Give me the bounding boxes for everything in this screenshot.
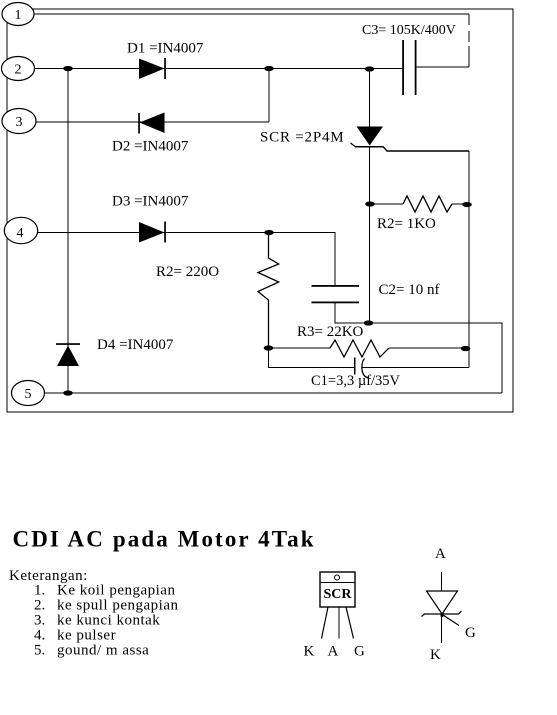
wire right column dashed upper bbox=[468, 14, 470, 46]
svg-text:A: A bbox=[435, 546, 446, 562]
wire R2 1K row left bbox=[370, 203, 404, 205]
terminal 2 bbox=[2, 57, 35, 81]
capacitor C3 bbox=[402, 40, 416, 95]
terminal 4 bbox=[4, 217, 37, 243]
wire R3 row right bbox=[389, 347, 466, 349]
svg-text:4: 4 bbox=[17, 226, 24, 241]
diode D1 bbox=[139, 58, 166, 79]
SCR symbol gate lead bbox=[443, 615, 459, 626]
wire SCR cathode column bbox=[369, 146, 371, 323]
junction D3-R2 node bbox=[264, 230, 274, 235]
SCR U1 (2P4M) bbox=[351, 127, 384, 147]
svg-text:3: 3 bbox=[16, 115, 23, 130]
svg-text:K: K bbox=[304, 644, 315, 660]
SCR package body bbox=[320, 572, 355, 607]
wire SCR anode stub bbox=[369, 69, 371, 128]
svg-text:G: G bbox=[354, 644, 365, 660]
svg-text:ke kunci kontak: ke kunci kontak bbox=[57, 613, 160, 629]
svg-text:2.: 2. bbox=[34, 598, 45, 614]
svg-text:C1=3,3 µf/35V: C1=3,3 µf/35V bbox=[311, 373, 401, 389]
resistor R3 22K (horizontal) bbox=[330, 340, 389, 357]
junction SCR cathode bottom bbox=[364, 320, 374, 325]
junction R3 right bbox=[461, 346, 471, 351]
svg-text:gound/ m assa: gound/ m assa bbox=[57, 643, 149, 659]
svg-text:ke spull pengapian: ke spull pengapian bbox=[57, 598, 178, 614]
capacitor C2 bbox=[312, 285, 360, 303]
junction D1-D2 node bbox=[264, 66, 274, 71]
svg-text:5.: 5. bbox=[34, 643, 45, 659]
wire right bus column bbox=[468, 151, 470, 368]
svg-text:4.: 4. bbox=[34, 628, 45, 644]
svg-text:1: 1 bbox=[15, 8, 22, 23]
wire R2 1K row right bbox=[452, 203, 469, 205]
wire terminal1 to right column bbox=[34, 13, 469, 15]
SCR symbol cathode lead bbox=[441, 614, 443, 643]
wire C3 right plate to right column bbox=[416, 66, 470, 68]
SCR package leg K bbox=[322, 607, 329, 639]
svg-text:5: 5 bbox=[25, 387, 32, 402]
wire right column solid lower bbox=[468, 46, 470, 67]
svg-text:R2= 220O: R2= 220O bbox=[156, 264, 219, 280]
wire link D1 junction down to terminal3 row bbox=[268, 69, 270, 123]
wire terminal4 row bbox=[37, 233, 335, 287]
svg-text:CDI AC pada Motor 4Tak: CDI AC pada Motor 4Tak bbox=[13, 527, 316, 552]
svg-text:A: A bbox=[328, 644, 339, 660]
svg-text:ke pulser: ke pulser bbox=[57, 628, 116, 644]
svg-text:SCR =2P4M: SCR =2P4M bbox=[260, 130, 344, 146]
svg-text:SCR: SCR bbox=[323, 587, 352, 602]
wire C2 bottom to ground column bbox=[335, 303, 502, 394]
junction terminal2-D4 column bbox=[63, 66, 73, 71]
wire C1 row bbox=[269, 348, 355, 368]
svg-text:D4 =IN4007: D4 =IN4007 bbox=[97, 337, 174, 353]
SCR symbol triangle bbox=[427, 591, 458, 614]
wire left vertical column through D4 bbox=[67, 69, 69, 394]
schematic frame bbox=[7, 9, 513, 412]
junction R2 1K left bbox=[365, 201, 375, 206]
wire terminal3 row bbox=[36, 121, 269, 123]
wire gate row bbox=[383, 147, 469, 152]
svg-text:1.: 1. bbox=[34, 583, 45, 599]
SCR symbol cathode bar bbox=[422, 611, 462, 617]
svg-text:R2= 1KO: R2= 1KO bbox=[377, 216, 436, 232]
svg-text:D1 =IN4007: D1 =IN4007 bbox=[127, 41, 204, 57]
svg-text:D2 =IN4007: D2 =IN4007 bbox=[112, 139, 189, 155]
junction R2 1K right bbox=[462, 202, 472, 207]
diode D2 bbox=[138, 113, 164, 134]
junction terminal5 bbox=[63, 390, 73, 395]
svg-text:K: K bbox=[430, 647, 441, 663]
SCR package leg A bbox=[338, 607, 340, 639]
svg-text:Ke koil pengapian: Ke koil pengapian bbox=[57, 583, 175, 599]
diode D4 bbox=[56, 343, 80, 366]
terminal 1 bbox=[2, 3, 34, 26]
svg-text:C3= 105K/400V: C3= 105K/400V bbox=[362, 23, 456, 38]
svg-text:R3= 22KO: R3= 22KO bbox=[297, 324, 364, 340]
terminal 5 bbox=[12, 381, 45, 406]
SCR symbol anode lead bbox=[441, 572, 443, 591]
wire terminal2 row bbox=[34, 68, 403, 70]
wire C1 row right bbox=[362, 367, 469, 369]
diode D3 bbox=[139, 222, 166, 243]
resistor R2 1K (horizontal) bbox=[403, 196, 452, 212]
svg-text:2: 2 bbox=[15, 63, 22, 78]
wire R3 row left bbox=[269, 347, 331, 349]
junction SCR anode node bbox=[365, 66, 375, 71]
svg-text:C2= 10 nf: C2= 10 nf bbox=[379, 282, 440, 298]
wire terminal5 row bbox=[45, 392, 503, 394]
junction R3 left bbox=[264, 345, 274, 350]
SCR package leg G bbox=[346, 607, 354, 639]
svg-text:G: G bbox=[465, 625, 476, 641]
svg-text:3.: 3. bbox=[34, 613, 45, 629]
capacitor C1 bbox=[355, 358, 369, 378]
terminal 3 bbox=[2, 109, 36, 134]
resistor R2 220 (vertical) bbox=[258, 233, 279, 349]
svg-text:D3 =IN4007: D3 =IN4007 bbox=[112, 194, 189, 210]
